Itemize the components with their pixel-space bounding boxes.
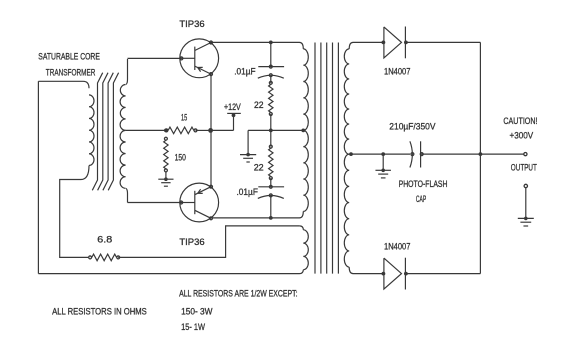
resistor 22 lower (269, 145, 272, 148)
svg-text:+300V: +300V (510, 131, 534, 142)
resistor 22 upper (269, 81, 272, 84)
svg-text:22: 22 (254, 162, 264, 173)
node junction collector2/capacitor stack (269, 216, 273, 220)
transistor Q2 TIP36 lower (180, 183, 219, 222)
node Q2 collector pin (210, 217, 213, 220)
ground reference at output (524, 184, 527, 187)
wire bottom rail from output transformer primary bottom to left bus (38, 270, 303, 274)
svg-text:22: 22 (254, 100, 264, 111)
node Q1 emitter pin (210, 73, 213, 76)
output transformer T2 core (314, 43, 316, 274)
svg-text:TIP36: TIP36 (179, 19, 204, 30)
svg-text:+12V: +12V (224, 102, 241, 113)
svg-text:6.8: 6.8 (97, 234, 112, 245)
wire T1 secondary center tap to resistor 15 (126, 129, 167, 131)
node Q1 base pin (180, 57, 183, 60)
wire right bus vertical (479, 42, 481, 273)
wire output stub (480, 153, 523, 155)
node Q2 emitter pin (210, 185, 213, 188)
svg-text:SATURABLE CORE: SATURABLE CORE (38, 52, 100, 63)
wire left bus vertical (37, 81, 39, 273)
ground below resistor 150 (165, 172, 167, 179)
power +12V supply symbol (233, 113, 235, 130)
ground below photoflash capacitor negative (382, 154, 384, 170)
svg-text:PHOTO-FLASH: PHOTO-FLASH (399, 179, 448, 190)
node primary center tap (301, 129, 305, 133)
wire junction to resistor 22 lower (270, 130, 272, 146)
wire capacitor C1 to resistor 22 upper (270, 42, 272, 66)
capacitor C1 .01uF upper (258, 66, 284, 68)
diode D2 1N4007 lower (382, 272, 386, 276)
saturable core transformer T1 core (92, 73, 102, 191)
wire collector1 junction node (269, 41, 273, 45)
svg-text:CAUTION!: CAUTION! (503, 116, 537, 127)
saturable core transformer T1 secondary winding upper half (126, 59, 127, 85)
svg-text:CAP: CAP (416, 194, 426, 205)
svg-text:OUTPUT: OUTPUT (511, 163, 537, 174)
wire photoflash capacitor to right bus (421, 153, 481, 155)
svg-text:ALL RESISTORS IN OHMS: ALL RESISTORS IN OHMS (52, 307, 147, 318)
node junction photoflash ground (381, 152, 385, 156)
resistor 15 (165, 129, 168, 132)
svg-text:210µF/350V: 210µF/350V (389, 122, 436, 133)
wire feedback loop from 6.8 resistor to T2 lower primary (118, 226, 299, 258)
svg-text:TIP36: TIP36 (179, 237, 204, 248)
wire emitter junction to +12V stem (211, 129, 234, 131)
node junction tap/150 resistor (164, 129, 168, 133)
wire bottom rail from diode D2 anode to output transformer secondary bottom (349, 267, 383, 274)
wire Q2 collector to output transformer primary upper section bottom (211, 211, 303, 218)
wire resistor 15 to emitter junction (196, 129, 211, 131)
wire center tap ground tee to primary center tap (248, 129, 303, 131)
wire top of T1 primary to left bus (38, 81, 89, 88)
svg-text:ALL RESISTORS ARE 1/2W EXCEPT:: ALL RESISTORS ARE 1/2W EXCEPT: (179, 289, 297, 300)
svg-text:150- 3W: 150- 3W (181, 307, 212, 318)
wire top rail from diode D1 cathode to right bus corner (406, 41, 481, 43)
wire T1 primary bottom to 6.8 resistor row (60, 166, 89, 258)
wire secondary tap to photoflash capacitor (349, 153, 410, 155)
capacitor C3 photoflash 210uF/350V (410, 141, 412, 167)
wire top rail from Q1 collector to output transformer primary top (211, 42, 303, 49)
wire top rail from output transformer secondary top to diode D1 (349, 42, 383, 49)
wire T1 secondary bottom to Q2 base (128, 202, 182, 204)
output transformer T2 primary winding upper section (303, 49, 308, 130)
transistor Q1 TIP36 upper (180, 39, 219, 78)
svg-text:1N4007: 1N4007 (384, 241, 410, 252)
output transformer T2 secondary winding (344, 49, 349, 154)
wire bottom rail from right bus to diode D2 cathode (406, 273, 481, 275)
resistor 150 (164, 137, 167, 140)
node output terminal (524, 153, 527, 156)
svg-text:15: 15 (181, 112, 187, 123)
svg-text:TRANSFORMER: TRANSFORMER (46, 67, 96, 78)
svg-text:.01µF: .01µF (237, 187, 259, 198)
wire Q1 emitter down to emitter junction (210, 74, 212, 130)
wire T1 secondary top to Q1 base (128, 57, 182, 59)
node secondary tap (349, 152, 353, 156)
wire emitter junction up from Q2 emitter (210, 130, 212, 186)
svg-text:1N4007: 1N4007 (384, 67, 410, 78)
node Q1 collector pin (210, 41, 213, 44)
svg-text:150: 150 (175, 153, 186, 164)
ground at primary center tap (247, 130, 249, 154)
output transformer T2 primary winding lower section (299, 226, 303, 230)
resistor 6.8 (89, 256, 92, 259)
node Q2 base pin (180, 201, 183, 204)
saturable core transformer T1 secondary winding lower half (120, 130, 125, 188)
node emitter junction (208, 128, 213, 133)
saturable core transformer T1 primary winding (89, 95, 94, 166)
svg-text:15- 1W: 15- 1W (181, 322, 205, 333)
node junction right bus output (479, 152, 483, 156)
node junction between 22 resistors (269, 129, 273, 133)
capacitor C2 .01uF lower (270, 178, 272, 187)
wire resistor 22 upper to junction (270, 114, 272, 130)
svg-text:.01µF: .01µF (234, 66, 256, 77)
diode D1 1N4007 upper (382, 41, 386, 45)
